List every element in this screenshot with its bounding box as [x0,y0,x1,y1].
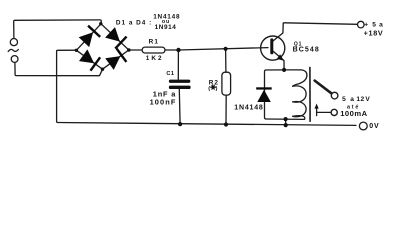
svg-text:BC548: BC548 [293,47,320,54]
svg-text:100nF: 100nF [150,98,177,107]
svg-text:0V: 0V [369,123,379,130]
svg-text:(: ( [208,86,210,92]
svg-text:1N914: 1N914 [155,24,177,31]
svg-text:D1 a D4 :: D1 a D4 : [116,19,152,26]
svg-text:): ) [216,86,218,92]
svg-text:1N4148: 1N4148 [234,105,263,112]
svg-text:5a12V: 5a12V [342,96,370,103]
svg-text:R1: R1 [149,39,160,46]
svg-text:+18V: +18V [364,29,384,38]
svg-text:+5a: +5a [364,22,383,29]
svg-text:1K2: 1K2 [146,55,164,62]
svg-text:100mA: 100mA [340,109,367,118]
svg-text:C1: C1 [166,71,174,77]
